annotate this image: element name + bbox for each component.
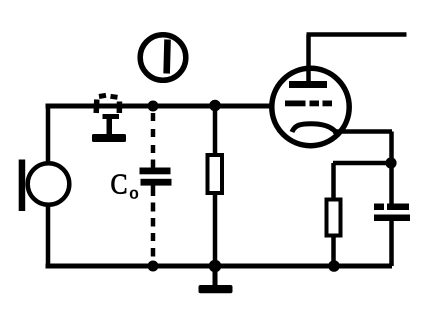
wire: dashed stem from C0 bottom plate to ground bus (151, 185, 156, 257)
svg-text:C: C (111, 170, 128, 201)
wire: bottom ground bus (46, 264, 393, 269)
wire: microphone bottom to ground bus (46, 205, 51, 269)
ground symbol bar (199, 285, 233, 293)
wire: cathode node down to capacitor C2 (389, 168, 394, 204)
wire: cathode branch down to junction (389, 132, 394, 161)
capacitor C2 bottom plate (374, 215, 410, 222)
junction dot: cathode node (385, 157, 396, 168)
capacitor C0 bottom plate (141, 179, 172, 186)
probe electrode (I-shaped stub) below dashed circle (92, 114, 126, 142)
resistor R1 (grid leak) (208, 155, 223, 193)
wire: anode top wire to supply (B+) (307, 32, 407, 37)
tube V1 cathode arc (292, 124, 337, 133)
node 1 digit (163, 39, 170, 73)
junction dot: R2 on ground bus (328, 260, 340, 272)
wire: dashed stem from grid bus to C0 top plate (151, 113, 156, 169)
resistor R2 (cathode bias) (327, 200, 341, 236)
wire: cathode node left to R2 branch (333, 161, 388, 166)
capacitor C2 top plate (374, 204, 409, 211)
tube V1 anode lead (306, 35, 311, 85)
wire: from grid bus down to resistor R1 (213, 106, 218, 155)
wire: left vertical from grid bus down to microphone (46, 104, 51, 164)
tube V1 anode plate (289, 81, 327, 88)
wire: cathode lead exiting tube to the right (333, 129, 392, 134)
ground symbol stem (213, 266, 218, 286)
junction dot: C0 branch on ground bus (148, 261, 159, 272)
tube V1 envelope (272, 68, 349, 145)
junction dot: grid bus / C0 branch (148, 101, 159, 112)
microphone M1 body (28, 163, 70, 205)
capacitor C0 top plate (140, 168, 171, 175)
wire: R2 to ground bus (331, 235, 336, 266)
wire: from R1 down to ground bus (213, 193, 218, 266)
label C0 (111, 170, 139, 203)
microphone M1 diaphragm bar (19, 160, 26, 212)
wire: C2 to ground bus (389, 221, 394, 266)
wire: main grid bus (node A) from left branch to tube grid (46, 104, 273, 109)
junction dot: grid bus / R1 branch (209, 100, 221, 112)
node 1: circled terminal label (140, 35, 186, 81)
junction dot: R1 branch on ground bus (209, 260, 222, 273)
connector/probe point: dashed circle on grid bus (96, 95, 119, 113)
tube V1 grid (dashed) (285, 101, 332, 107)
svg-text:o: o (130, 183, 139, 203)
wire: down to resistor R2 (331, 163, 336, 200)
